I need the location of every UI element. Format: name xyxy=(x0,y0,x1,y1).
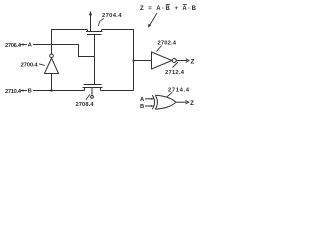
svg-text:2710.4: 2710.4 xyxy=(5,89,22,95)
svg-text:Z = A·B + A·B: Z = A·B + A·B xyxy=(140,6,197,12)
svg-text:2712.4: 2712.4 xyxy=(165,70,185,76)
svg-text:2702.4: 2702.4 xyxy=(158,40,177,46)
svg-text:B: B xyxy=(140,104,144,110)
svg-text:2704.4: 2704.4 xyxy=(102,13,122,19)
svg-text:Z: Z xyxy=(190,58,194,65)
svg-text:Z: Z xyxy=(190,100,194,107)
svg-text:2700.4: 2700.4 xyxy=(21,63,39,69)
svg-text:2706.4: 2706.4 xyxy=(5,43,22,49)
svg-text:B: B xyxy=(28,89,32,95)
svg-text:2708.4: 2708.4 xyxy=(76,102,95,108)
svg-text:2714.4: 2714.4 xyxy=(168,88,190,94)
